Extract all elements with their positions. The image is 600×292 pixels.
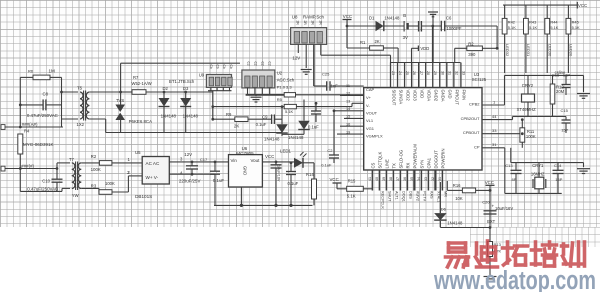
svg-text:1N4148: 1N4148 xyxy=(288,135,304,140)
label C19 value xyxy=(277,165,281,182)
label T5 xyxy=(77,85,83,90)
ground CRY1 xyxy=(577,163,590,174)
svg-text:100K: 100K xyxy=(105,181,115,186)
svg-text:1N4148: 1N4148 xyxy=(161,114,177,119)
wire VCC stem bottom xyxy=(489,185,491,227)
wire R11 to rail riser xyxy=(510,148,512,163)
svg-text:32: 32 xyxy=(454,71,458,75)
svg-text:2K: 2K xyxy=(234,124,239,129)
wire R16 left xyxy=(447,181,462,190)
svg-text:VCC: VCC xyxy=(330,177,339,182)
wire T7 sec top lead xyxy=(81,162,99,164)
wire R44 bottom xyxy=(546,34,548,73)
transformer T5 secondary coil xyxy=(86,92,89,119)
svg-text:30: 30 xyxy=(440,71,444,75)
capacitor C13 xyxy=(511,163,522,194)
svg-text:VGMPLX: VGMPLX xyxy=(366,134,383,139)
label R9 value xyxy=(234,124,239,129)
connector U2 xyxy=(242,70,275,88)
label R9 xyxy=(226,112,232,117)
wire pin44 riser xyxy=(513,117,529,120)
wire U6 vout xyxy=(262,161,294,163)
label C22 value xyxy=(321,162,332,167)
svg-text:VCC: VCC xyxy=(485,180,494,185)
svg-text:U5: U5 xyxy=(135,150,141,155)
resistor R42 xyxy=(502,18,507,34)
label C16 xyxy=(552,73,560,78)
label R15 xyxy=(348,179,356,184)
svg-text:VCC: VCC xyxy=(265,154,274,159)
wire T7 sec bottom lead xyxy=(81,188,99,192)
transformer T7 secondary coil xyxy=(78,163,81,189)
svg-text:U9: U9 xyxy=(199,73,205,78)
resistor R43 xyxy=(524,18,529,34)
svg-text:R6: R6 xyxy=(28,69,34,74)
power bar VCC right xyxy=(576,2,578,9)
label R2 value xyxy=(91,167,101,172)
svg-text:0.1uF: 0.1uF xyxy=(308,125,319,130)
svg-text:ALT1: ALT1 xyxy=(395,191,399,200)
svg-text:R4: R4 xyxy=(24,129,30,134)
svg-text:0.1uF: 0.1uF xyxy=(213,178,225,183)
svg-text:15: 15 xyxy=(346,115,350,119)
svg-text:31: 31 xyxy=(447,71,451,75)
label R11 xyxy=(527,129,535,134)
label R4 xyxy=(24,129,30,134)
wire R1 to bus xyxy=(383,48,398,63)
wire CRY1 top rail xyxy=(511,162,584,164)
label C13 xyxy=(505,163,513,168)
label C9 xyxy=(262,114,268,119)
transformer T7 primary coil xyxy=(72,163,75,189)
svg-text:GXD: GXD xyxy=(448,90,453,99)
wire bus 106 xyxy=(211,105,284,108)
svg-text:VOUT: VOUT xyxy=(366,110,378,115)
svg-text:TX: TX xyxy=(391,163,396,169)
svg-text:LED30: LED30 xyxy=(547,44,552,57)
svg-text:SUNDA: SUNDA xyxy=(398,90,403,105)
wire R9 to C9 xyxy=(248,118,272,120)
svg-text:5.1K: 5.1K xyxy=(347,194,356,199)
svg-text:100K: 100K xyxy=(526,134,536,139)
wire D7 bottom xyxy=(439,221,441,228)
label C9 value xyxy=(256,122,267,127)
label T5 ratio xyxy=(77,122,85,127)
wire pin19 stub xyxy=(337,133,364,135)
svg-text:VCC: VCC xyxy=(343,14,352,19)
label D1 xyxy=(369,16,375,21)
ic U1 body xyxy=(364,88,482,170)
label C25 xyxy=(322,72,330,77)
label C20 plus xyxy=(492,204,495,209)
node C8 left junction xyxy=(19,104,22,107)
wire U8 pin4 down xyxy=(321,44,391,55)
power bar VCC R15 xyxy=(333,182,342,184)
resistor R6 xyxy=(33,75,50,80)
power bar VCC top xyxy=(343,19,352,21)
wire R44 top xyxy=(546,5,548,18)
wire R7 right lead xyxy=(146,91,213,93)
svg-text:C20: C20 xyxy=(482,200,490,205)
svg-text:5.1K: 5.1K xyxy=(285,109,294,114)
resistor R7 xyxy=(132,90,146,95)
wire R42 top xyxy=(504,5,506,18)
label csline xyxy=(555,70,566,75)
svg-text:Vout: Vout xyxy=(251,158,261,163)
wire D2 cathode xyxy=(163,107,165,133)
svg-text:BT1.JTB.Sch: BT1.JTB.Sch xyxy=(169,79,195,84)
watermark text yidituo peixun xyxy=(446,241,585,267)
wire pin16 stub xyxy=(340,125,364,127)
wire C18 bottom lead xyxy=(191,169,194,176)
label D5 part xyxy=(288,135,304,140)
svg-text:LED20: LED20 xyxy=(569,44,574,57)
svg-text:0.47uF/250VAC: 0.47uF/250VAC xyxy=(27,186,58,191)
label VCC bottom xyxy=(485,180,494,185)
svg-text:RAMP.Sch: RAMP.Sch xyxy=(303,14,324,19)
svg-text:RX: RX xyxy=(405,162,410,168)
svg-text:10K: 10K xyxy=(455,196,463,201)
wire R1 leg xyxy=(347,26,370,48)
svg-text:GNDA: GNDA xyxy=(441,90,446,102)
wire ground rail bottom xyxy=(214,204,313,206)
wire R3 to bridge xyxy=(112,176,142,192)
svg-text:3: 3 xyxy=(180,157,183,162)
label R3 xyxy=(91,184,97,189)
wire D1 to battery xyxy=(384,25,404,27)
wire C8 right lead xyxy=(46,104,62,106)
resistor R5 xyxy=(284,93,295,97)
label R16 value xyxy=(455,196,463,201)
connector U8 xyxy=(291,28,327,45)
label C6 value xyxy=(446,26,461,31)
label U5 AC AC xyxy=(146,161,160,166)
wire R2top left xyxy=(455,48,467,62)
label U3 sheet xyxy=(472,77,487,82)
svg-text:38: 38 xyxy=(389,177,393,181)
capacitor C10 xyxy=(52,179,63,182)
resistor R15 xyxy=(347,186,364,191)
wire R6 left leg xyxy=(20,77,33,127)
svg-text:Cb: Cb xyxy=(216,65,220,69)
svg-text:MC7805: MC7805 xyxy=(236,151,254,156)
wire U1 pin1 CPB2 xyxy=(482,104,505,106)
svg-text:KUV2: KUV2 xyxy=(416,191,420,201)
wires U1 bottom pins xyxy=(372,170,442,191)
label U8 xyxy=(292,14,298,19)
label R12 xyxy=(556,85,564,90)
svg-text:11: 11 xyxy=(346,84,350,88)
wire CRY2 top rail xyxy=(505,74,584,76)
labels U1 top pins xyxy=(391,90,466,106)
svg-text:31: 31 xyxy=(438,177,442,181)
wire VDD flag xyxy=(412,48,419,62)
wire D5 bottom lead xyxy=(282,130,304,135)
label C8 value xyxy=(27,113,58,118)
labels U1 left pins xyxy=(366,87,383,139)
wire pin12 stub jog xyxy=(340,94,364,96)
svg-text:20M: 20M xyxy=(556,89,565,94)
wire R13 top xyxy=(489,228,491,242)
labels U2 pin nets xyxy=(247,62,272,66)
label U6 Vout xyxy=(251,158,261,163)
wire C13m bottom xyxy=(315,114,317,122)
svg-text:15P: 15P xyxy=(555,177,562,182)
label U6 Vin xyxy=(231,158,238,163)
diode D4 xyxy=(276,124,288,133)
svg-text:CPA1: CPA1 xyxy=(426,157,431,168)
label R13 value xyxy=(493,249,502,254)
wire input line A xyxy=(4,126,63,128)
svg-text:R3: R3 xyxy=(91,184,97,189)
wire C8 left lead xyxy=(20,104,43,106)
wire R8 to pin13 xyxy=(296,103,363,106)
wire CRY1 bottom rail xyxy=(505,192,562,194)
label C13m value xyxy=(308,125,319,130)
label R16 xyxy=(453,183,461,188)
capacitor C14 xyxy=(553,163,564,194)
label C10 xyxy=(42,179,50,184)
svg-text:15P: 15P xyxy=(561,128,568,133)
svg-text:35: 35 xyxy=(410,177,414,181)
wire VCC to R15 xyxy=(337,183,347,189)
svg-text:VL1: VL1 xyxy=(366,118,374,123)
label VCC right xyxy=(578,3,587,8)
svg-text:P1.0 3.3: P1.0 3.3 xyxy=(277,85,293,90)
capacitor C16 xyxy=(562,75,571,95)
svg-text:5.1K: 5.1K xyxy=(508,25,516,30)
label U9 sheet xyxy=(169,79,195,84)
wire C9 to D4 node xyxy=(274,118,282,120)
labels U1 bottom pin numbers xyxy=(368,177,442,181)
wire T5 primary bottom xyxy=(62,118,79,120)
label R2top value xyxy=(468,52,476,57)
label D7 xyxy=(441,206,447,211)
svg-text:DBS: DBS xyxy=(409,191,413,199)
wire R13 bottom xyxy=(489,257,491,276)
svg-text:10uF/16V: 10uF/16V xyxy=(495,206,513,211)
wire D7 to EXT xyxy=(440,227,490,229)
svg-text:10uF/16V: 10uF/16V xyxy=(277,165,281,182)
svg-text:GND: GND xyxy=(243,166,248,175)
label R4 value xyxy=(23,142,54,147)
wire C17 top lead xyxy=(214,161,217,172)
wire CP down xyxy=(504,148,506,194)
svg-text:W52-1A/W: W52-1A/W xyxy=(132,81,152,86)
label CRY2 part xyxy=(517,107,537,112)
wire T7 primary top lead xyxy=(57,163,70,169)
svg-text:CS: CS xyxy=(370,162,375,168)
resistor R1 xyxy=(370,46,384,50)
capacitor C13m xyxy=(311,111,321,114)
label R12 value xyxy=(556,89,565,94)
svg-text:AC AC: AC AC xyxy=(146,161,160,166)
label net LED31 xyxy=(526,44,531,57)
svg-text:T5: T5 xyxy=(77,85,83,90)
labels U1 bottom pins xyxy=(370,144,445,169)
label CRY2 xyxy=(522,83,534,88)
svg-text:25: 25 xyxy=(405,71,409,75)
wire C22 bottom xyxy=(333,158,335,163)
wire U8 pin2 to ground xyxy=(305,44,307,68)
ground top middle xyxy=(428,12,438,26)
svg-text:37: 37 xyxy=(396,177,400,181)
label R1 xyxy=(360,40,366,45)
svg-text:R16: R16 xyxy=(453,183,461,188)
svg-text:VDD2: VDD2 xyxy=(405,90,410,102)
label C17 xyxy=(200,157,208,162)
labels U9 pin nets xyxy=(209,65,233,69)
label R1 value xyxy=(375,39,380,44)
svg-text:1X2: 1X2 xyxy=(77,122,85,127)
svg-text:1: 1 xyxy=(493,100,496,105)
svg-text:5.1K: 5.1K xyxy=(529,25,537,30)
label R15 value xyxy=(347,194,356,199)
diode D2 xyxy=(159,98,170,107)
wire D3 anode xyxy=(184,91,187,98)
svg-text:44: 44 xyxy=(492,114,497,119)
svg-text:SCI125: SCI125 xyxy=(472,77,487,82)
svg-text:XT49MHZ: XT49MHZ xyxy=(517,107,537,112)
svg-text:2: 2 xyxy=(127,170,130,175)
label U5 xyxy=(135,150,141,155)
svg-text:C25: C25 xyxy=(322,72,330,77)
svg-text:B: B xyxy=(403,13,406,18)
label R45 value xyxy=(572,25,580,30)
resistor R45 xyxy=(566,18,571,34)
wire C19 bottom lead xyxy=(274,168,277,207)
wire R9 left lead xyxy=(211,118,234,121)
label C13 value xyxy=(512,177,517,182)
wire T7 primary bottom lead xyxy=(62,188,70,191)
svg-text:3V: 3V xyxy=(403,35,408,40)
label D3 xyxy=(183,86,189,91)
label D2 part xyxy=(161,114,177,119)
svg-text:CPBOUT: CPBOUT xyxy=(463,130,480,135)
label VCC at U6 xyxy=(265,154,274,159)
wire B bottom bus xyxy=(20,169,62,192)
svg-text:V+: V+ xyxy=(366,95,372,100)
wire C25 right lead xyxy=(330,85,364,87)
wire R16 right xyxy=(476,189,492,192)
svg-text:Cb: Cb xyxy=(209,65,213,69)
wire R7 left lead xyxy=(121,91,132,93)
crystal CRY1 xyxy=(533,163,546,194)
svg-text:C2: C2 xyxy=(247,62,251,66)
svg-text:33: 33 xyxy=(424,177,428,181)
resistor R11 xyxy=(520,118,525,148)
wire U1 pin31 CP xyxy=(482,147,505,149)
wire CRY2 bottom rail xyxy=(528,116,566,118)
tvs D8 bidirectional xyxy=(115,105,125,121)
wire U8 pin1 xyxy=(297,44,299,53)
wire R6 right leg xyxy=(50,77,62,127)
label B battery xyxy=(403,13,406,18)
wire C7 to C6 xyxy=(421,25,441,27)
wire C18 top lead xyxy=(191,161,194,166)
label U2 xyxy=(277,71,283,76)
svg-text:12V: 12V xyxy=(292,55,300,60)
wire C17 bottom lead xyxy=(214,174,216,205)
svg-text:23: 23 xyxy=(391,71,395,75)
svg-text:33: 33 xyxy=(492,128,497,133)
wire bottom return bus xyxy=(106,132,282,134)
svg-text:C10: C10 xyxy=(42,179,50,184)
wire TVS top xyxy=(120,63,122,104)
svg-text:CRY1: CRY1 xyxy=(532,163,544,168)
label 1M xyxy=(49,69,56,74)
label net LED20 xyxy=(569,44,574,57)
label pin31 xyxy=(492,142,497,147)
svg-text:26: 26 xyxy=(412,71,416,75)
label U6 xyxy=(242,146,248,151)
svg-text:EXT: EXT xyxy=(487,219,496,224)
label bridge pin4 xyxy=(180,171,183,176)
svg-text:2K: 2K xyxy=(375,39,380,44)
wire pin1 riser xyxy=(504,75,506,105)
svg-text:SIDOUT: SIDOUT xyxy=(391,90,396,106)
svg-text:SCTQLK: SCTQLK xyxy=(377,152,382,169)
svg-text:LINE: LINE xyxy=(384,159,389,169)
svg-text:V-: V- xyxy=(366,103,370,108)
label R43 value xyxy=(529,25,537,30)
svg-text:MYG-06D391K: MYG-06D391K xyxy=(23,142,54,147)
label bridge pin1 xyxy=(128,157,131,162)
ground U8 pin2 xyxy=(301,70,312,75)
power bar VCC bottom xyxy=(486,184,495,186)
capacitor C19 electrolytic xyxy=(271,165,282,168)
wire LED1 cathode xyxy=(303,163,314,179)
label D1 part xyxy=(384,16,400,21)
connector U2 slots xyxy=(245,76,272,87)
capacitor C18 electrolytic xyxy=(186,166,198,169)
svg-text:TVS: TVS xyxy=(116,98,124,103)
wire R43 bottom xyxy=(525,34,527,73)
svg-text:R2: R2 xyxy=(91,154,97,159)
node thick drop xyxy=(431,25,434,28)
label R42 value xyxy=(508,25,516,30)
svg-text:C2: C2 xyxy=(268,62,272,66)
label R42 xyxy=(508,20,515,25)
label 12V U8 xyxy=(292,55,300,60)
wire R42 bottom xyxy=(504,34,506,73)
diode D1 xyxy=(376,21,384,31)
label C20 xyxy=(482,200,490,205)
svg-text:12V: 12V xyxy=(184,152,192,157)
wire pin14 stub xyxy=(334,110,364,112)
diode LED1 xyxy=(294,152,307,168)
label R7 value xyxy=(132,81,152,86)
svg-text:KAS: KAS xyxy=(430,191,434,199)
wire D4 top lead xyxy=(281,105,284,124)
wire D5 top lead xyxy=(303,100,305,121)
label R44 value xyxy=(550,25,558,30)
label R6 xyxy=(28,69,34,74)
wire input line B xyxy=(4,168,57,170)
label input line A (chinese) xyxy=(22,122,38,127)
wire pin15 stub xyxy=(344,117,364,119)
svg-text:C8: C8 xyxy=(43,92,49,97)
power flag VDD xyxy=(418,46,429,52)
resistor R3sec xyxy=(99,190,112,195)
wire C6 node down xyxy=(496,26,498,48)
wire R2top right xyxy=(482,47,498,50)
labels U8 pin nets xyxy=(296,21,323,26)
ground U2 xyxy=(251,95,262,102)
label EXT xyxy=(487,219,496,224)
svg-text:Vin: Vin xyxy=(231,158,238,163)
label C14 xyxy=(554,163,562,168)
